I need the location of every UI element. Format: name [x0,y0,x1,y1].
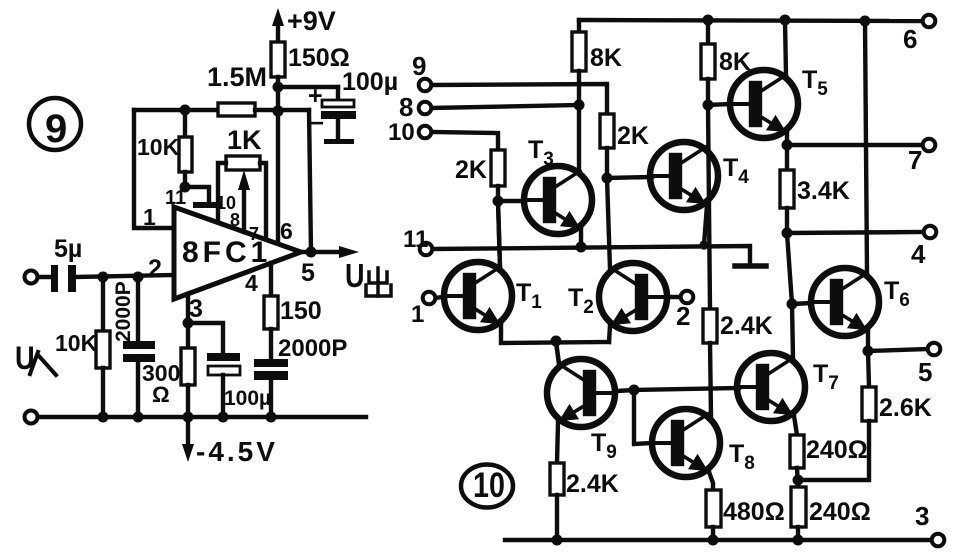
svg-text:1: 1 [143,204,156,230]
svg-text:−: − [310,110,324,137]
svg-text:100µ: 100µ [224,387,271,410]
svg-text:6: 6 [280,218,293,244]
svg-text:8FC1: 8FC1 [182,236,271,269]
svg-text:T5: T5 [802,66,828,100]
svg-text:2000P: 2000P [112,281,135,342]
svg-text:U: U [345,259,365,295]
svg-text:9: 9 [45,107,67,151]
svg-text:11: 11 [165,187,186,209]
svg-text:3: 3 [915,501,929,531]
svg-text:7: 7 [908,145,922,175]
svg-text:10K: 10K [137,134,180,160]
svg-text:10K: 10K [55,330,98,356]
svg-text:240Ω: 240Ω [809,498,871,526]
svg-text:480Ω: 480Ω [723,498,785,526]
svg-text:T6: T6 [884,277,910,311]
svg-text:6: 6 [903,24,917,54]
svg-text:3.4K: 3.4K [797,177,850,205]
svg-text:T2: T2 [568,284,594,318]
svg-text:2.6K: 2.6K [879,394,932,422]
svg-text:4: 4 [245,270,258,296]
svg-text:8K: 8K [590,44,622,72]
svg-text:T4: T4 [723,154,749,188]
svg-text:4: 4 [911,239,926,269]
svg-text:T8: T8 [729,440,755,474]
svg-text:1: 1 [411,301,424,328]
svg-text:10: 10 [473,465,505,504]
svg-text:2: 2 [676,301,690,331]
svg-text:T7: T7 [813,360,839,394]
svg-text:150Ω: 150Ω [288,44,350,72]
svg-text:2000P: 2000P [278,335,347,362]
svg-text:9: 9 [412,51,426,81]
svg-text:1K: 1K [227,125,262,155]
svg-text:100µ: 100µ [342,68,398,96]
svg-text:240Ω: 240Ω [806,436,868,464]
svg-text:+: + [308,82,323,110]
svg-text:+9V: +9V [287,6,336,36]
svg-text:8K: 8K [719,48,751,76]
svg-text:11: 11 [403,226,428,253]
svg-text:T9: T9 [591,429,617,463]
svg-text:Ω: Ω [152,382,170,407]
svg-text:8: 8 [399,92,413,122]
svg-text:2: 2 [148,255,162,283]
svg-text:10: 10 [388,119,415,146]
svg-text:2.4K: 2.4K [566,470,619,498]
svg-text:8: 8 [230,210,240,230]
svg-text:-4.5V: -4.5V [196,436,278,467]
svg-text:2.4K: 2.4K [720,312,773,340]
svg-text:2K: 2K [617,122,649,150]
svg-text:5: 5 [918,357,932,387]
svg-text:150: 150 [280,297,322,325]
svg-text:2K: 2K [455,156,487,184]
svg-text:5: 5 [301,259,315,287]
svg-text:1.5M: 1.5M [207,62,267,92]
svg-text:T3: T3 [528,136,554,170]
svg-text:T1: T1 [516,279,542,313]
svg-text:3: 3 [189,295,203,323]
svg-text:5µ: 5µ [54,235,82,263]
